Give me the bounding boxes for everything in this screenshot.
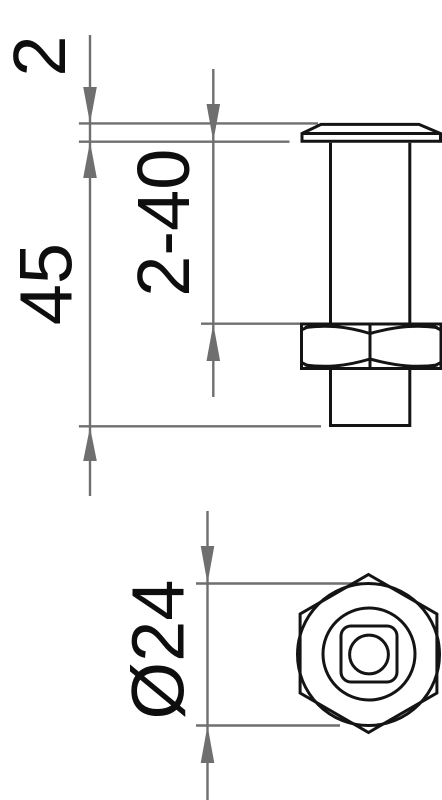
svg-text:2: 2	[0, 36, 81, 77]
svg-text:2-40: 2-40	[122, 149, 205, 297]
svg-text:Ø24: Ø24	[117, 580, 200, 720]
svg-text:45: 45	[5, 243, 88, 325]
